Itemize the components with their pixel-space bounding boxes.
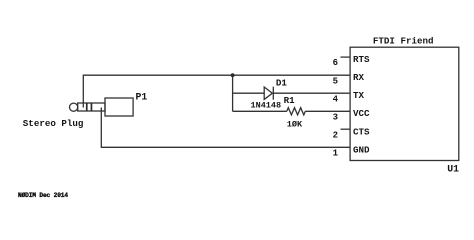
svg-text:RX: RX (353, 72, 365, 83)
svg-text:NØDIM Dec 2014: NØDIM Dec 2014 (18, 192, 68, 199)
svg-text:D1: D1 (276, 78, 288, 89)
svg-text:TX: TX (353, 90, 365, 101)
svg-text:CTS: CTS (353, 126, 370, 137)
resistor R1 zigzag (287, 108, 306, 115)
plug P1 body (105, 98, 133, 116)
svg-text:1: 1 (333, 148, 339, 158)
svg-text:GND: GND (353, 144, 370, 155)
wire sleeve-to-GND (101, 108, 350, 148)
svg-text:RTS: RTS (353, 54, 370, 65)
plug P1 tip circle (70, 103, 78, 111)
node junction dot (231, 73, 235, 77)
svg-text:R1: R1 (284, 95, 296, 106)
diode D1 triangle (264, 87, 272, 99)
svg-text:VCC: VCC (353, 108, 370, 119)
pin 2 stub (341, 128, 351, 130)
wire diode anode (233, 92, 265, 94)
wire R1 to VCC (305, 110, 350, 112)
plug ring divider 1 (86, 103, 88, 111)
svg-text:P1: P1 (136, 91, 148, 102)
plug P1 shaft (78, 103, 105, 111)
plug ring divider 2 (91, 103, 93, 111)
svg-text:2: 2 (333, 130, 338, 140)
svg-text:U1: U1 (447, 164, 459, 175)
IC U1 box (350, 47, 459, 160)
svg-text:6: 6 (333, 58, 338, 68)
pin 6 stub (341, 56, 351, 58)
svg-text:4: 4 (333, 94, 339, 104)
svg-text:1N4148: 1N4148 (251, 101, 282, 111)
svg-text:Stereo Plug: Stereo Plug (23, 118, 84, 129)
svg-text:5: 5 (333, 76, 338, 86)
wire junction vertical (232, 75, 234, 111)
wire diode cathode to TX (273, 92, 350, 94)
svg-text:FTDI Friend: FTDI Friend (373, 36, 434, 47)
wire junction to R1 (233, 110, 287, 112)
svg-text:3: 3 (333, 112, 338, 122)
diode D1 cathode bar (272, 87, 274, 100)
wire tip-to-RX vertical+horizontal (83, 75, 350, 107)
svg-text:1ØK: 1ØK (287, 119, 303, 129)
